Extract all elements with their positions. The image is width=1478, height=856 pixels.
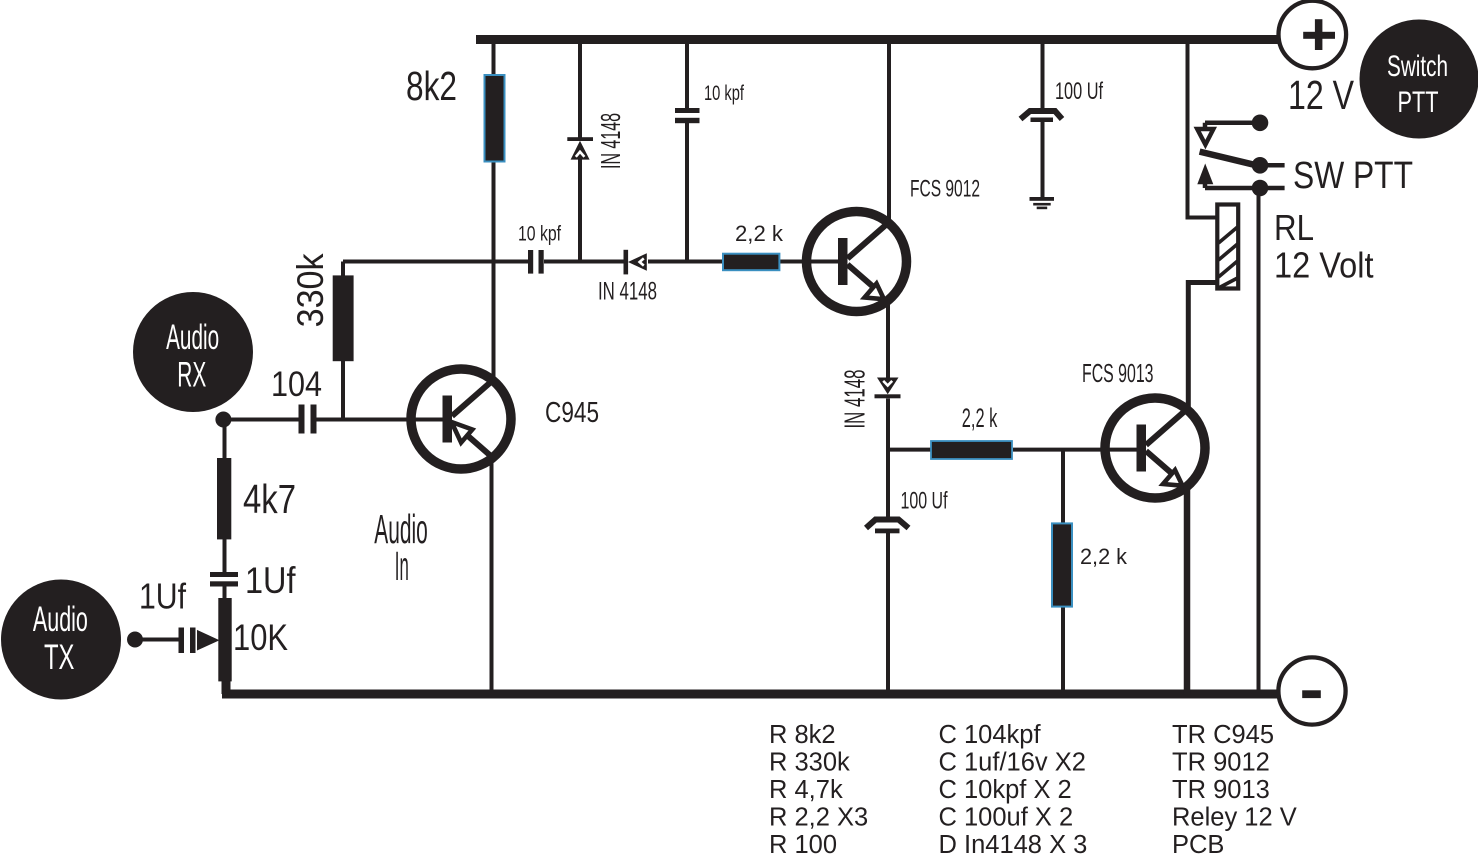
wire C945 base bbox=[223, 418, 452, 422]
diode D1 IN4148 (vertical, pointing up) bbox=[567, 137, 593, 159]
svg-text:1Uf: 1Uf bbox=[245, 560, 296, 601]
svg-text:TX: TX bbox=[44, 638, 75, 677]
svg-text:4k7: 4k7 bbox=[243, 476, 296, 522]
svg-text:RL: RL bbox=[1274, 207, 1314, 248]
svg-text:FCS 9013: FCS 9013 bbox=[1082, 358, 1154, 388]
capacitor C5 100Uf (top electrolytic) bbox=[1021, 111, 1063, 122]
switch lever bbox=[1200, 152, 1257, 166]
svg-text:IN 4148: IN 4148 bbox=[598, 278, 657, 306]
wire left chain vertical bbox=[223, 420, 227, 599]
wire relay bottom to FCS9013 collector bbox=[1188, 283, 1217, 408]
node junction dot (TX) bbox=[127, 632, 143, 648]
resistor R6 2,2k (horizontal 2) bbox=[931, 441, 1012, 459]
svg-text:C 100uf X 2: C 100uf X 2 bbox=[939, 804, 1074, 832]
terminal -12V bbox=[1278, 657, 1345, 724]
balloon Audio RX bbox=[133, 292, 253, 412]
svg-text:2,2 k: 2,2 k bbox=[735, 221, 784, 246]
svg-text:C 1uf/16v X2: C 1uf/16v X2 bbox=[939, 749, 1086, 777]
wire middle contact stub bbox=[1260, 163, 1285, 168]
parts list column 2 bbox=[939, 721, 1088, 856]
wire FCS9012 collector bbox=[887, 40, 891, 225]
svg-text:SW PTT: SW PTT bbox=[1293, 155, 1413, 197]
svg-text:TR 9012: TR 9012 bbox=[1172, 749, 1270, 777]
wire base rail (330k top to FCS9012 base) bbox=[343, 260, 847, 264]
transistor Q3 FCS9013 bbox=[1105, 398, 1205, 498]
wire SW PTT to ground rail bbox=[1257, 188, 1261, 694]
svg-text:In: In bbox=[395, 543, 409, 589]
transistor Q2 FCS9012 bbox=[807, 212, 907, 312]
capacitor C4 1Uf (vertical) bbox=[210, 572, 238, 587]
svg-text:RX: RX bbox=[177, 356, 206, 395]
capacitor C6 1Uf (TX, with arrow) bbox=[179, 628, 220, 654]
svg-text:Audio: Audio bbox=[33, 600, 88, 639]
parts list column 3 bbox=[1172, 721, 1297, 856]
svg-text:10 kpf: 10 kpf bbox=[704, 82, 744, 105]
diode D3 IN4148 (vertical, pointing down) bbox=[875, 378, 901, 399]
svg-text:C 104kpf: C 104kpf bbox=[939, 721, 1042, 749]
svg-text:100 Uf: 100 Uf bbox=[901, 488, 948, 515]
wire top +12V rail bbox=[476, 35, 1289, 44]
wire vertical diode branch bbox=[578, 44, 582, 264]
svg-text:R 100: R 100 bbox=[769, 831, 837, 856]
node top contact dot bbox=[1252, 115, 1269, 132]
svg-text:Audio: Audio bbox=[166, 318, 219, 357]
switch throw triangle (up, filled) bbox=[1197, 164, 1213, 185]
svg-text:2,2 k: 2,2 k bbox=[1080, 544, 1128, 569]
svg-text:Reley 12 V: Reley 12 V bbox=[1172, 804, 1297, 832]
svg-text:PTT: PTT bbox=[1398, 86, 1439, 119]
capacitor C2 10kpf (vertical) bbox=[675, 108, 700, 123]
resistor R1 8k2 bbox=[485, 75, 505, 162]
node junction dot (RX) bbox=[215, 412, 231, 428]
svg-text:R 4,7k: R 4,7k bbox=[769, 776, 843, 804]
svg-text:100 Uf: 100 Uf bbox=[1055, 78, 1103, 105]
balloon Switch PTT bbox=[1360, 20, 1478, 139]
wire FCS9013 emitter to ground rail bbox=[1184, 483, 1191, 694]
svg-text:TR C945: TR C945 bbox=[1172, 721, 1274, 749]
svg-text:PCB: PCB bbox=[1172, 831, 1224, 856]
switch throw triangle (down, open) bbox=[1197, 129, 1213, 145]
ground symbol bbox=[1030, 197, 1055, 209]
wire C945 emitter to ground rail bbox=[490, 460, 494, 694]
transistor Q1 C945 bbox=[411, 369, 511, 469]
wire relay left branch from rail bbox=[1188, 40, 1218, 218]
capacitor C1 104 bbox=[299, 405, 317, 434]
svg-text:8k2: 8k2 bbox=[406, 63, 457, 109]
resistor R4 2,2k (horizontal 1) bbox=[723, 254, 779, 271]
wire bottom ground rail bbox=[222, 690, 1288, 699]
resistor R7 2,2k (vertical) bbox=[1052, 523, 1072, 606]
svg-text:12 V: 12 V bbox=[1288, 72, 1355, 118]
wire 330k branch bbox=[341, 262, 345, 420]
svg-text:1Uf: 1Uf bbox=[139, 576, 187, 617]
svg-text:330k: 330k bbox=[290, 253, 331, 327]
svg-text:12 Volt: 12 Volt bbox=[1274, 245, 1374, 286]
diode D2 IN4148 (horizontal, pointing left) bbox=[624, 250, 647, 275]
resistor R2 330k bbox=[333, 275, 354, 361]
wire 8k2/collector branch (rail to C945 collector) bbox=[492, 40, 496, 378]
svg-text:10K: 10K bbox=[233, 617, 288, 658]
svg-text:C945: C945 bbox=[545, 397, 599, 429]
svg-text:C 10kpf X 2: C 10kpf X 2 bbox=[939, 776, 1072, 804]
wire 100uf top branch bbox=[1041, 40, 1045, 199]
capacitor C3 10kpf (horizontal) bbox=[528, 250, 544, 274]
wire 2,2k vertical branch bbox=[1061, 450, 1065, 694]
svg-text:R 2,2 X3: R 2,2 X3 bbox=[769, 804, 868, 832]
svg-text:R 8k2: R 8k2 bbox=[769, 721, 836, 749]
node middle contact dot bbox=[1252, 157, 1269, 174]
switch bottom contact bbox=[1205, 184, 1285, 188]
terminal +12V bbox=[1279, 1, 1347, 69]
wire TX to cap bbox=[135, 638, 179, 642]
wire 10K to rail corner bbox=[222, 680, 231, 694]
svg-text:FCS 9012: FCS 9012 bbox=[910, 176, 980, 203]
svg-text:IN 4148: IN 4148 bbox=[595, 113, 626, 169]
wire FCS9012 emitter / diode / 100uf branch bbox=[886, 298, 890, 694]
switch SW PTT top contact bbox=[1205, 123, 1260, 127]
svg-text:IN 4148: IN 4148 bbox=[839, 370, 871, 429]
resistor R5 10K bbox=[218, 598, 231, 681]
wire vertical 10kpf branch bbox=[685, 44, 689, 264]
svg-text:Switch: Switch bbox=[1387, 50, 1448, 83]
parts list column 1 bbox=[769, 721, 868, 856]
svg-text:D In4148 X 3: D In4148 X 3 bbox=[939, 831, 1088, 856]
resistor R3 4k7 bbox=[217, 458, 231, 539]
capacitor C7 100Uf (mid electrolytic) bbox=[866, 520, 909, 534]
svg-text:10 kpf: 10 kpf bbox=[518, 223, 561, 246]
svg-text:R 330k: R 330k bbox=[769, 749, 850, 777]
relay RL coil bbox=[1217, 205, 1238, 289]
balloon Audio TX bbox=[1, 580, 121, 700]
wire FCS9013 base rail bbox=[888, 448, 1146, 452]
svg-text:104: 104 bbox=[271, 365, 322, 404]
node bottom contact dot bbox=[1252, 180, 1269, 197]
svg-text:2,2 k: 2,2 k bbox=[962, 403, 998, 433]
svg-text:TR 9013: TR 9013 bbox=[1172, 776, 1270, 804]
